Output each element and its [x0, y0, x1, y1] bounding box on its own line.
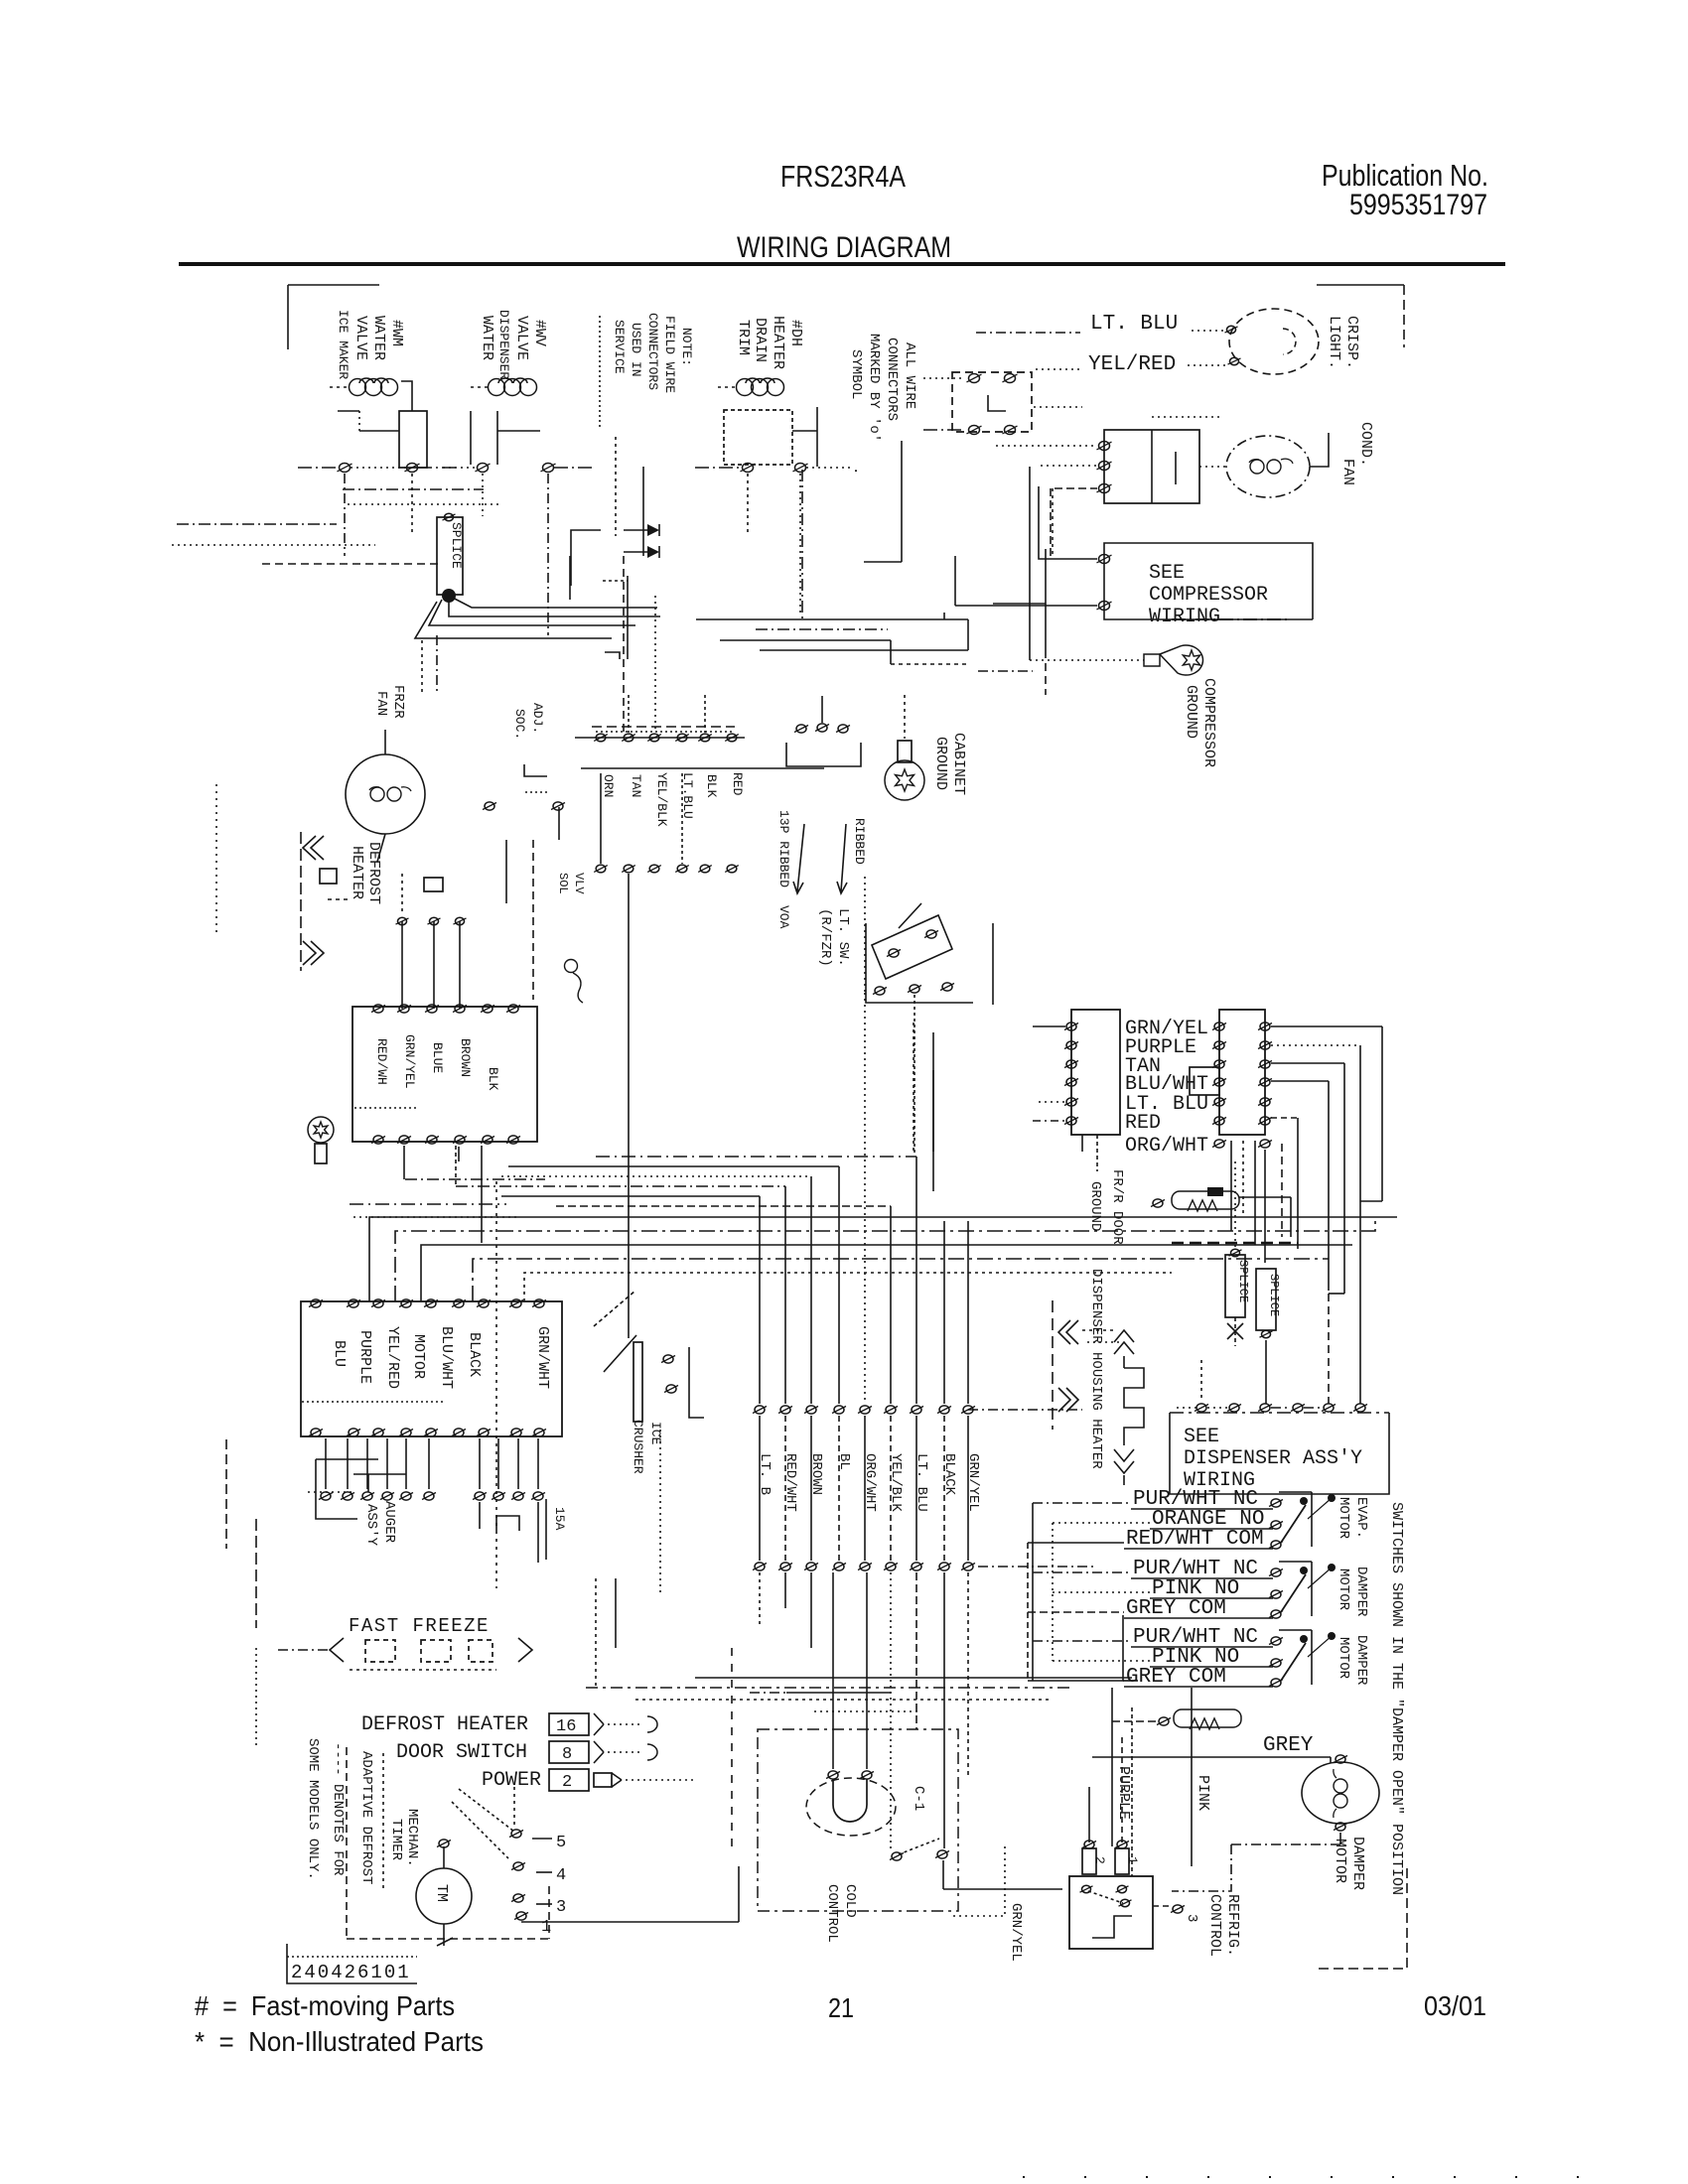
terminal aug2-1	[319, 1492, 333, 1500]
svg-text:TM: TM	[433, 1884, 450, 1902]
terminal damper bot	[1334, 1823, 1347, 1831]
svg-text:WATER: WATER	[370, 316, 387, 360]
terminal ts2-3	[647, 865, 661, 873]
part number box	[287, 1944, 417, 1983]
terminal aug-bot6	[452, 1429, 466, 1436]
heading rule	[179, 262, 1505, 266]
wire column lower 4	[838, 1416, 840, 1561]
wire dotted x665	[659, 1430, 661, 1596]
conn 16	[549, 1713, 604, 1736]
svg-text:HEATER: HEATER	[770, 316, 786, 369]
wire bottom center drops	[916, 1572, 968, 1777]
wire left edge col	[216, 784, 226, 1549]
relay divider	[1152, 430, 1176, 503]
svg-text:FIELD WIRE: FIELD WIRE	[662, 316, 677, 393]
label damper motor2	[1336, 1635, 1369, 1686]
wire column lower 5	[864, 1416, 866, 1561]
svg-text:FAN: FAN	[1339, 459, 1356, 485]
terminal fdl-4	[1064, 1078, 1078, 1086]
label LT. BLU	[1090, 313, 1178, 336]
label water dispenser valve	[479, 310, 548, 379]
terminal row1-6	[884, 1406, 898, 1414]
terminal strip lower line	[581, 767, 824, 769]
wire fd left leads	[1033, 1026, 1065, 1121]
timer contact labels	[532, 1834, 566, 1937]
terminal splice top	[443, 513, 456, 520]
terminal ts-1	[594, 734, 608, 742]
terminal fdl-2	[1064, 1041, 1078, 1049]
mini ground clip	[565, 960, 584, 1004]
terminal fdl-6	[1064, 1117, 1078, 1125]
label BLU/WHT	[1125, 1073, 1208, 1096]
label dispenser housing heater	[1088, 1269, 1104, 1469]
diode symbol 1	[624, 524, 659, 536]
diode bracket	[571, 530, 601, 586]
svg-text:VALVE: VALVE	[513, 316, 530, 360]
svg-text:CRISP.: CRISP.	[1343, 316, 1360, 369]
terminal aug-bot5	[424, 1429, 438, 1436]
diode symbol 2	[624, 546, 659, 558]
terminal adj1	[483, 802, 496, 810]
terminal disp-4	[1291, 1404, 1305, 1412]
svg-text:CRUSHER: CRUSHER	[631, 1420, 645, 1474]
svg-text:---- DENOTES FOR: ---- DENOTES FOR	[330, 1742, 346, 1876]
terminal aug2-2	[341, 1492, 354, 1500]
wire column 4	[838, 1166, 840, 1404]
wire rv4	[1271, 1081, 1329, 1291]
wire cb drops	[404, 1146, 545, 1243]
svg-text:Publication No.: Publication No.	[1322, 158, 1488, 193]
splice box r2	[1256, 1269, 1276, 1338]
terminal ts2-2	[622, 865, 635, 873]
wire rv6	[1264, 1150, 1266, 1263]
svg-text:COND.: COND.	[1357, 422, 1374, 467]
svg-text:DAMPER: DAMPER	[1353, 1567, 1369, 1617]
label splice r1	[1236, 1260, 1250, 1302]
terminal ts2-4	[675, 865, 689, 873]
svg-text:FAN: FAN	[373, 691, 389, 716]
svg-text:VALVE: VALVE	[352, 316, 369, 360]
svg-text:DEFROST: DEFROST	[365, 842, 382, 904]
terminal row2-1	[753, 1563, 767, 1570]
adaptive defrost dash box	[347, 1747, 549, 1939]
terminal row2-6	[884, 1563, 898, 1570]
terminal D1	[741, 464, 756, 473]
label col LT. B	[757, 1453, 773, 1495]
blob frr	[1207, 1187, 1223, 1196]
label PURPLE	[1125, 1036, 1196, 1059]
splice box left	[437, 517, 463, 595]
relay box	[1104, 430, 1199, 503]
terminal fdr-5	[1258, 1098, 1272, 1106]
bail arm switch	[604, 1335, 704, 1422]
svg-text:DISPENSER: DISPENSER	[496, 310, 511, 379]
svg-text:GRN/YEL: GRN/YEL	[1008, 1903, 1024, 1962]
cold control dash box	[758, 1729, 958, 1911]
label col BL	[836, 1453, 852, 1470]
terminal fdr-in-3	[1212, 1060, 1226, 1068]
svg-text:FRZR: FRZR	[390, 685, 406, 719]
label GRN/YEL	[1125, 1018, 1208, 1040]
svg-text:BLACK: BLACK	[466, 1332, 483, 1377]
terminal bail2	[664, 1385, 678, 1393]
svg-text:DAMPER: DAMPER	[1353, 1635, 1369, 1686]
terminal cb-top2	[397, 1005, 411, 1013]
terminal aug-top8	[509, 1299, 523, 1307]
splice r1 cross	[1227, 1317, 1243, 1346]
wire column lower 1	[759, 1416, 761, 1561]
svg-text:RED/WHT: RED/WHT	[782, 1453, 798, 1512]
terminal aug-bot4	[399, 1429, 413, 1436]
svg-text:LT. BLU: LT. BLU	[1090, 313, 1178, 336]
label adj soc	[512, 703, 545, 740]
svg-text:VOA: VOA	[776, 905, 791, 929]
svg-text:2: 2	[562, 1773, 572, 1792]
wire relay leads left	[996, 446, 1097, 466]
wire aug stub 2	[347, 1438, 349, 1489]
svg-text:SPLICE: SPLICE	[1236, 1260, 1250, 1302]
wire rv7	[1281, 1144, 1283, 1237]
label see compressor wiring	[1149, 562, 1268, 628]
svg-text:EVAP.: EVAP.	[1353, 1497, 1369, 1539]
wire E2 right lead	[1034, 406, 1082, 408]
svg-text:2: 2	[1092, 1856, 1107, 1864]
svg-text:SPLICE: SPLICE	[449, 522, 464, 569]
terminal E2a	[967, 374, 982, 383]
wire E2 left leads	[923, 378, 965, 430]
wire top-right bracket	[1317, 285, 1404, 347]
wire disp leads	[1177, 1407, 1323, 1409]
svg-text:.: .	[850, 467, 866, 475]
wire col feed 923	[596, 1156, 916, 1158]
terminal ts2-1	[594, 865, 608, 873]
terminal aug-top9	[532, 1299, 546, 1307]
wire trio riser	[821, 696, 823, 723]
wire rv5	[1271, 1118, 1298, 1249]
bottom dotted line	[1023, 2176, 1614, 2178]
wire fd bottom drop	[1231, 1141, 1255, 1245]
svg-text:LIGHT.: LIGHT.	[1326, 316, 1342, 369]
wire run riser link	[943, 613, 945, 619]
box notch dotted	[354, 1107, 419, 1109]
terminal bail1	[661, 1355, 675, 1363]
wire timer arm	[452, 1787, 514, 1858]
terminal aug2-5	[399, 1492, 413, 1500]
wire column lower 8	[943, 1416, 945, 1561]
label cond fan	[1339, 422, 1374, 485]
svg-text:MOTOR: MOTOR	[410, 1334, 427, 1379]
label evap motor	[1336, 1497, 1369, 1540]
label splice r2	[1267, 1274, 1281, 1316]
terminal disp-6	[1353, 1404, 1367, 1412]
wire top-left corner bracket	[288, 285, 379, 349]
wire mod feeds1	[1028, 1503, 1150, 1543]
terminal crisp1	[1225, 326, 1238, 333]
wire center long dash col	[256, 1181, 496, 1747]
wire heater feed	[1087, 1341, 1122, 1343]
svg-text:MARKED BY 'o': MARKED BY 'o'	[866, 334, 882, 442]
label voa ribbed	[776, 810, 791, 929]
terminal fdr-3	[1258, 1060, 1272, 1068]
wire lsw arm	[899, 903, 933, 1155]
terminal aug-bot1	[309, 1429, 323, 1436]
svg-text:03/01: 03/01	[1424, 1990, 1486, 2021]
terminal fdr-2	[1258, 1041, 1272, 1049]
wire aug long stubs	[480, 1499, 546, 1563]
terminal cb-bot3	[425, 1136, 439, 1144]
svg-text:CONTROL: CONTROL	[824, 1884, 840, 1943]
terminal ts-4	[675, 734, 689, 742]
wire damper bottom	[1172, 1833, 1340, 1891]
terminal ts-2	[622, 734, 635, 742]
wire column 7	[915, 1157, 917, 1404]
note underline	[599, 316, 601, 427]
timer contacts	[509, 1830, 528, 1920]
svg-text:3: 3	[556, 1898, 566, 1917]
terminal fdr-7	[1258, 1140, 1272, 1148]
defrost timer motor	[416, 1868, 472, 1924]
svg-text:CABINET: CABINET	[950, 733, 967, 795]
svg-text:1: 1	[541, 1918, 551, 1937]
wire heater drops	[402, 874, 460, 1009]
svg-text:RED: RED	[1125, 1112, 1161, 1135]
wire yel/red lead	[1036, 365, 1227, 369]
arrow ribbed2	[837, 824, 847, 893]
label ice crusher	[631, 1420, 663, 1474]
label door switch row	[396, 1741, 527, 1764]
wire aug horiz links	[308, 1459, 406, 1519]
label C-1	[911, 1786, 926, 1811]
svg-text:LT. SW.: LT. SW.	[835, 908, 851, 967]
small box between conns	[1190, 1067, 1219, 1095]
terminal A1	[338, 464, 352, 473]
component box D dashed	[724, 407, 817, 467]
wire splice drop	[422, 635, 437, 695]
label 3	[1184, 1914, 1199, 1922]
control board box	[352, 1007, 537, 1142]
wire column 1	[759, 1196, 761, 1404]
terminal row1-5	[858, 1406, 872, 1414]
svg-text:13P RIBBED: 13P RIBBED	[776, 810, 791, 887]
terminal row2-8	[937, 1563, 951, 1570]
label ribbed	[852, 818, 867, 865]
svg-text:DISPENSER ASS'Y: DISPENSER ASS'Y	[1184, 1447, 1362, 1470]
labels control board wires	[374, 1034, 500, 1091]
terminal adj2	[551, 802, 565, 810]
wire column 9	[967, 1221, 969, 1404]
wire ts risers	[601, 695, 705, 864]
wire fan right lead	[1310, 433, 1329, 467]
conn 8	[549, 1741, 604, 1764]
svg-text:#WM: #WM	[388, 320, 405, 346]
wire splice fanout	[415, 596, 660, 638]
svg-text:AUGER: AUGER	[381, 1501, 397, 1544]
wire pink drop	[1191, 1688, 1193, 1866]
terminal fdl-1	[1064, 1023, 1078, 1030]
svg-text:SOC.: SOC.	[512, 709, 527, 740]
label post 2	[1092, 1856, 1107, 1864]
svg-text:DOOR SWITCH: DOOR SWITCH	[396, 1741, 527, 1764]
label purple	[1115, 1766, 1132, 1820]
svg-text:8: 8	[562, 1745, 572, 1764]
svg-text:SWITCHES SHOWN IN THE "DAMPER: SWITCHES SHOWN IN THE "DAMPER OPEN" POSI…	[1388, 1502, 1405, 1895]
trio bracket	[786, 743, 861, 766]
label fr/r door ground	[1087, 1169, 1125, 1245]
svg-text:DAMPER: DAMPER	[1349, 1837, 1366, 1890]
svg-text:ASS'Y: ASS'Y	[363, 1504, 379, 1547]
terminal aug-top7	[477, 1299, 491, 1307]
terminal aug-top3	[371, 1299, 385, 1307]
wire mod feeds3	[1028, 1641, 1150, 1681]
label refrig control	[1206, 1894, 1241, 1957]
terminal cb-top3	[425, 1005, 439, 1013]
label col YEL/BLK	[888, 1453, 904, 1512]
label auger assy	[363, 1501, 397, 1547]
label some models	[305, 1738, 321, 1880]
svg-text:REFRIG.: REFRIG.	[1224, 1894, 1241, 1957]
terminal row2-3	[804, 1563, 818, 1570]
label compressor ground	[1183, 678, 1217, 767]
svg-text:3: 3	[1184, 1914, 1199, 1922]
wire tl risers	[345, 474, 800, 635]
label power row	[482, 1769, 541, 1792]
svg-text:BLU: BLU	[331, 1340, 348, 1367]
svg-text:CONNECTORS: CONNECTORS	[645, 313, 660, 390]
refrig control box	[1069, 1876, 1153, 1949]
terminal fdl-5	[1064, 1098, 1078, 1106]
svg-text:DRAIN: DRAIN	[752, 318, 769, 362]
terminal ts-3	[647, 734, 661, 742]
svg-text:MOTOR: MOTOR	[1332, 1839, 1348, 1883]
terminal fdr-in-4	[1212, 1078, 1226, 1086]
splice box r1	[1225, 1161, 1245, 1317]
terminal trio a	[794, 725, 808, 733]
terminal aug-top5	[424, 1299, 438, 1307]
svg-text:PINK: PINK	[1195, 1775, 1211, 1811]
terminal row1-3	[804, 1406, 818, 1414]
terminal disp-2	[1227, 1404, 1241, 1412]
terminal aug-top6	[452, 1299, 466, 1307]
terminal D2	[793, 464, 808, 473]
wire refrig right	[1153, 1905, 1185, 1913]
wire riser x808	[801, 470, 803, 619]
terminal ts2-6	[725, 865, 739, 873]
svg-text:RIBBED: RIBBED	[852, 818, 867, 865]
wire fan vertical x632	[603, 576, 628, 659]
svg-text:SOL: SOL	[556, 873, 570, 894]
cond fan motor	[1226, 436, 1310, 497]
wire vertical x908	[864, 441, 902, 562]
terminal ht3	[454, 917, 467, 924]
svg-text:YEL/RED: YEL/RED	[384, 1326, 401, 1389]
wire bottom left drops	[760, 1572, 811, 1648]
wire column 3	[810, 1176, 812, 1404]
terminal ht1	[396, 917, 409, 924]
label col BROWN	[808, 1453, 824, 1495]
fr/r door ground clip	[1151, 1191, 1291, 1237]
terminal trio b	[815, 724, 829, 732]
svg-text:VLV: VLV	[572, 873, 586, 894]
freezer door conn left	[1071, 1010, 1120, 1135]
refrig posts	[1082, 1841, 1129, 1874]
terminal aug-top4	[399, 1299, 413, 1307]
splice joint blob	[442, 589, 456, 603]
svg-text:TIMER: TIMER	[388, 1819, 404, 1861]
wire grn/yel drop	[953, 1846, 1005, 1916]
wire aug single 2	[492, 1438, 505, 1500]
component box ice maker water valve	[399, 411, 427, 468]
svg-text:NOTE:: NOTE:	[679, 328, 694, 366]
svg-text:SOME MODELS ONLY.: SOME MODELS ONLY.	[305, 1738, 321, 1880]
defrost heater bracket	[301, 832, 350, 971]
wire column 6	[890, 1206, 892, 1404]
terminal fdr-in-6	[1212, 1117, 1226, 1125]
wire relay to fan	[1152, 417, 1229, 467]
terminal cc1	[826, 1771, 840, 1779]
labels auger connector	[302, 1326, 551, 1402]
label 15A	[552, 1507, 567, 1531]
switch module damper1	[1124, 1558, 1336, 1620]
svg-text:YEL/BLK: YEL/BLK	[888, 1453, 904, 1512]
wire adj drops	[506, 807, 559, 1000]
wire row3 lead	[626, 1779, 695, 1781]
note all wire connectors	[848, 334, 917, 475]
label grey	[1263, 1734, 1314, 1757]
terminal aug-bot7	[477, 1429, 491, 1436]
terminal aug-bot9	[532, 1429, 546, 1436]
wire comp lead2	[955, 556, 1097, 606]
terminal aug-bot2	[347, 1429, 360, 1436]
wire cabinet gnd lead	[904, 695, 906, 739]
svg-text:CONNECTORS: CONNECTORS	[884, 338, 900, 421]
wire col drop 871	[864, 877, 866, 993]
dispenser assy wiring box	[1170, 1413, 1389, 1494]
svg-text:POWER: POWER	[482, 1769, 541, 1792]
bus line 1	[369, 1217, 1397, 1301]
svg-text:21: 21	[828, 1992, 854, 2023]
svg-text:FRS23R4A: FRS23R4A	[780, 159, 906, 194]
label col BLACK	[941, 1453, 957, 1496]
terminal A2	[405, 464, 420, 473]
svg-text:COMPRESSOR: COMPRESSOR	[1200, 678, 1217, 767]
conn 2	[549, 1769, 622, 1792]
refrig contacts	[1080, 1885, 1132, 1906]
wire long bus 1213	[350, 1203, 506, 1205]
svg-text:# = Fast-moving Parts: # = Fast-moving Parts	[195, 1990, 455, 2021]
terminal row2-7	[910, 1563, 923, 1570]
bus line 3	[421, 1245, 1352, 1301]
label frzr fan	[373, 685, 406, 719]
terminal cb-bot5	[481, 1136, 494, 1144]
terminal E2d	[1003, 426, 1018, 435]
svg-text:* = Non-Illustrated Parts: * = Non-Illustrated Parts	[195, 2026, 484, 2057]
svg-text:MOTOR: MOTOR	[1336, 1637, 1351, 1680]
terminal relay1	[1097, 442, 1112, 451]
label fast freeze	[349, 1615, 490, 1637]
wire comp lead1	[1039, 486, 1097, 559]
terminal cb-bot6	[506, 1136, 520, 1144]
svg-text:WIRING: WIRING	[1149, 606, 1220, 628]
terminal disp-3	[1258, 1404, 1272, 1412]
wire mod verticals	[1028, 1503, 1138, 1681]
solenoid coil water dispenser valve	[471, 378, 537, 396]
arrow ribbed1	[793, 824, 804, 893]
wire A left leads	[338, 411, 359, 431]
svg-text:MECHAN.: MECHAN.	[404, 1809, 420, 1867]
terminal aug-top2	[347, 1299, 360, 1307]
labels terminal strip	[601, 772, 745, 827]
svg-text:SYMBOL: SYMBOL	[848, 349, 864, 399]
